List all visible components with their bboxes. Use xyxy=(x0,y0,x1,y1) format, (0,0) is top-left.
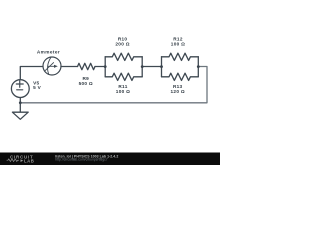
svg-text:5 V: 5 V xyxy=(33,85,42,90)
svg-text:200 Ω: 200 Ω xyxy=(115,41,129,46)
resistor R11 branch xyxy=(105,73,142,80)
svg-text:100 Ω: 100 Ω xyxy=(116,89,130,94)
return wire right and bottom xyxy=(20,67,207,103)
resistor R9 xyxy=(78,63,96,69)
svg-text:LAB: LAB xyxy=(24,159,34,164)
wire ammeter to R9 xyxy=(61,66,78,68)
node D junction dot xyxy=(19,101,22,104)
parallel block R12/R13 left bracket xyxy=(161,57,163,77)
resistor R10 branch xyxy=(105,53,142,60)
ground xyxy=(19,103,21,112)
node A junction dot xyxy=(104,65,107,68)
svg-text:http://circuitlab.com/c/bunpsr: http://circuitlab.com/c/bunpsrtl8gc7 xyxy=(55,158,108,162)
svg-text:500 Ω: 500 Ω xyxy=(79,81,93,86)
svg-text:100 Ω: 100 Ω xyxy=(171,41,185,46)
resistor R13 branch xyxy=(162,73,199,80)
svg-text:120 Ω: 120 Ω xyxy=(171,89,185,94)
parallel block R12/R13 right bracket xyxy=(197,57,199,77)
wire node B to node C xyxy=(142,66,161,68)
watermark bar xyxy=(0,153,220,166)
wire R9 to node A xyxy=(95,66,105,68)
ammeter U1 xyxy=(43,57,61,75)
CircuitLab logo xyxy=(7,155,35,164)
parallel block R10/R11 right bracket xyxy=(141,57,143,77)
node E junction dot xyxy=(197,65,200,68)
wire V5 bottom to node D xyxy=(19,98,21,103)
resistor R12 branch xyxy=(162,53,199,60)
node C junction dot xyxy=(160,65,163,68)
wire V5 top to ammeter xyxy=(20,67,43,80)
node B junction dot xyxy=(141,65,144,68)
parallel block R10/R11 left bracket xyxy=(104,57,106,77)
voltage source V5 xyxy=(11,80,29,98)
svg-text:Ammeter: Ammeter xyxy=(37,50,60,55)
